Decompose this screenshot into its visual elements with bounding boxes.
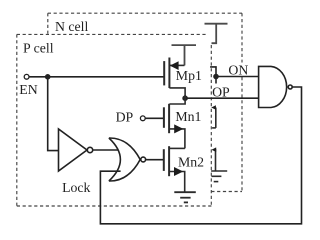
ground symbol below Mn2 (174, 192, 196, 202)
Mn2 source arrow (NMOS, points away) (174, 167, 183, 176)
svg-text:ON: ON (228, 63, 248, 78)
wire DP to Mn1 gate (145, 117, 163, 119)
svg-text:Mn2: Mn2 (178, 154, 204, 169)
svg-text:P cell: P cell (23, 40, 54, 55)
NAND gate (259, 66, 293, 107)
svg-text:Mp1: Mp1 (176, 68, 202, 83)
transistor Mn2 (164, 146, 185, 192)
wire NAND output feedback (100, 87, 301, 224)
wire EN node down to inverter input (48, 77, 59, 151)
N cell PMOS stub (212, 108, 216, 128)
wire inverter output to NOR top input (93, 149, 119, 151)
wire OP net to NAND lower input (185, 97, 258, 99)
NOR gate (109, 138, 146, 181)
node OP junction dot (182, 95, 188, 101)
N cell VDD supply bar (205, 24, 228, 44)
white gap in dashed border behind ON label (240, 63, 245, 75)
svg-text:EN: EN (19, 82, 37, 97)
wire Mp1 drain to Mn1 drain (169, 95, 185, 104)
svg-text:OP: OP (212, 85, 230, 100)
N cell PMOS stub arrow (211, 105, 216, 110)
wire NOR output to Mn2 gate (146, 159, 164, 161)
transistor Mp1 (164, 58, 185, 96)
N cell hook to ON node (210, 67, 216, 84)
svg-text:Lock: Lock (62, 180, 90, 195)
VDD supply bar for Mp1 (172, 45, 197, 65)
N cell NMOS stub arrow (212, 147, 217, 152)
Mp1 source arrow (PMOS, points to channel) (170, 61, 179, 70)
wire EN to Mp1 gate (29, 76, 163, 78)
P cell dashed box (17, 34, 213, 207)
junction dot EN node (45, 74, 51, 80)
N cell NMOS stub (215, 149, 217, 171)
svg-text:N cell: N cell (55, 19, 88, 34)
DP input terminal (140, 116, 145, 121)
N cell ground symbol (211, 171, 227, 182)
Mn1 source arrow (NMOS, points away) (174, 124, 183, 133)
wire ON net to NAND top input (216, 76, 258, 78)
N cell dashed box (48, 13, 242, 191)
svg-text:DP: DP (116, 110, 134, 125)
transistor Mn1 (164, 104, 185, 149)
node ON junction dot (213, 74, 219, 80)
inverter (Lock) (59, 129, 93, 171)
svg-text:Mn1: Mn1 (175, 109, 201, 124)
EN input terminal (24, 74, 29, 79)
